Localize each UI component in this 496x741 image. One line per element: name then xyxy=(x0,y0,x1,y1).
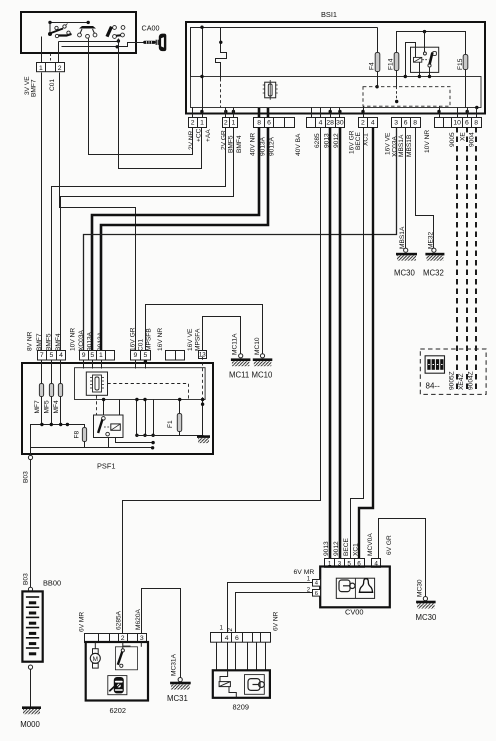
BSI1 box xyxy=(186,22,485,114)
PSF1 connector 9|5 xyxy=(131,351,151,361)
wire 9013 thick xyxy=(329,127,332,558)
wire M620A to ground MC31 xyxy=(142,589,181,678)
svg-text:4: 4 xyxy=(319,119,323,126)
CV00 box xyxy=(320,567,390,608)
wire 8209 pin4 to CV00 pin4 xyxy=(228,583,313,633)
svg-text:8: 8 xyxy=(474,119,478,126)
svg-text:MC30: MC30 xyxy=(416,613,437,622)
CA00 switch 3 xyxy=(106,26,125,39)
CA00 switch 2 xyxy=(78,26,97,38)
svg-text:16V GR: 16V GR xyxy=(129,327,136,351)
svg-text:9004: 9004 xyxy=(468,132,475,147)
CV00 lock icon xyxy=(339,580,355,592)
fuse MF4 xyxy=(58,384,62,397)
8209 switch element xyxy=(219,670,236,698)
BSI1 connector row G2 xyxy=(223,118,238,128)
svg-text:40V NR: 40V NR xyxy=(250,133,257,156)
svg-text:MC11A: MC11A xyxy=(232,333,239,355)
svg-text:6: 6 xyxy=(465,119,469,126)
svg-text:MC31A: MC31A xyxy=(171,653,178,676)
wire MBS1A to ground MC30 xyxy=(405,128,407,250)
svg-text:9: 9 xyxy=(134,352,138,359)
fuse MF5 xyxy=(49,384,53,397)
svg-text:ME32: ME32 xyxy=(427,231,434,249)
svg-text:MC10: MC10 xyxy=(252,371,273,380)
svg-text:6V NR: 6V NR xyxy=(273,611,280,631)
svg-text:MC31: MC31 xyxy=(167,694,188,703)
svg-text:1: 1 xyxy=(220,625,224,632)
svg-text:2: 2 xyxy=(227,628,234,632)
svg-text:9013: 9013 xyxy=(323,541,330,556)
svg-text:4: 4 xyxy=(225,635,229,642)
wire MBS1B to ground MC32 xyxy=(416,128,434,250)
BSI1 inner connector strip box xyxy=(191,77,482,108)
svg-text:MBS1A: MBS1A xyxy=(399,226,406,249)
BSI1 top bus xyxy=(191,28,378,77)
BSI1 connector row G6 xyxy=(392,118,421,128)
component 84-- dashed box xyxy=(420,349,486,394)
svg-text:XE4Z: XE4Z xyxy=(458,374,465,391)
svg-text:MC10: MC10 xyxy=(254,337,261,355)
svg-text:BMF7: BMF7 xyxy=(36,333,43,351)
svg-text:3: 3 xyxy=(140,635,144,642)
svg-text:3: 3 xyxy=(394,119,398,126)
battery terminal top xyxy=(28,587,32,591)
step connector wire to pin BMF5 feed xyxy=(216,28,227,79)
svg-text:4: 4 xyxy=(371,119,375,126)
svg-text:40V BA: 40V BA xyxy=(295,133,302,156)
svg-text:9005: 9005 xyxy=(449,132,456,147)
svg-text:MC11: MC11 xyxy=(229,371,249,380)
svg-text:9013A: 9013A xyxy=(87,331,94,351)
svg-text:BECE: BECE xyxy=(343,537,350,556)
BSI1 connector row G4 xyxy=(307,118,345,128)
svg-text:9012A: 9012A xyxy=(269,136,276,156)
wire BMF4 xyxy=(61,128,234,351)
svg-text:8V NR: 8V NR xyxy=(26,331,33,351)
battery terminal bottom xyxy=(28,665,32,669)
svg-text:C01: C01 xyxy=(49,79,56,91)
pin stubs G4 xyxy=(311,108,313,118)
wire MPSFA to ground MC11 xyxy=(203,317,241,356)
svg-text:8: 8 xyxy=(413,119,417,126)
svg-text:MF7: MF7 xyxy=(34,400,41,414)
ground MC30 terminal xyxy=(423,597,427,601)
wire BECE xyxy=(351,128,364,559)
BSI1 connector row G5 xyxy=(359,118,378,128)
svg-text:MPSFA: MPSFA xyxy=(195,328,202,351)
svg-text:10V NR: 10V NR xyxy=(69,328,76,351)
PSF1 relay box xyxy=(94,415,124,438)
svg-text:6V MR: 6V MR xyxy=(294,569,315,576)
svg-text:F1: F1 xyxy=(167,420,174,428)
svg-text:MPSFB: MPSFB xyxy=(145,328,152,351)
svg-text:2: 2 xyxy=(121,635,125,642)
PSF1 lower bus xyxy=(84,442,86,448)
CV00 inner box xyxy=(336,578,374,598)
svg-text:9005Z: 9005Z xyxy=(448,371,455,390)
svg-text:B03: B03 xyxy=(22,471,29,483)
6202 connector row xyxy=(85,634,147,643)
wire XC03A xyxy=(84,128,397,351)
wire 6285 xyxy=(123,128,321,634)
svg-text:F14: F14 xyxy=(387,58,394,70)
svg-text:6: 6 xyxy=(404,119,408,126)
svg-text:16V NR: 16V NR xyxy=(157,328,164,351)
PSF1 strip-to-bus verticals xyxy=(136,400,138,436)
CA00 switch 1 xyxy=(48,22,72,37)
BSI internal relay xyxy=(411,47,439,72)
svg-text:BB00: BB00 xyxy=(43,579,61,588)
svg-text:9013A: 9013A xyxy=(259,136,266,156)
dashed wire 9004 xyxy=(475,127,477,389)
BSI bus 2 F14-relay-F15 xyxy=(397,32,466,55)
6202 car-lock icon xyxy=(108,676,127,695)
ground M000 xyxy=(22,706,41,714)
wire MCV0A to ground MC30 xyxy=(379,519,426,597)
svg-text:CV00: CV00 xyxy=(345,608,364,617)
svg-text:1: 1 xyxy=(232,119,236,126)
PSF1 wires fuses to bus xyxy=(41,369,43,384)
wire 9013A thick xyxy=(92,127,259,350)
pin stubs G3 thick xyxy=(258,108,261,117)
relay top terminals xyxy=(103,400,105,416)
CA00 internal lower buses xyxy=(59,41,119,43)
BSI1 connector row G1 xyxy=(189,118,207,128)
svg-text:1: 1 xyxy=(99,352,103,359)
wire B03 battery positive xyxy=(30,460,32,588)
wire +AA (CA00 to BSI) xyxy=(119,39,202,169)
8209 connector stubs xyxy=(216,643,218,671)
CV00 connector row xyxy=(325,559,365,568)
svg-text:BMF7: BMF7 xyxy=(31,79,38,97)
fuse F14 xyxy=(394,53,399,71)
wire 9012 thick xyxy=(339,127,342,558)
PSF1 connector empty pair xyxy=(166,351,185,361)
dashed wire 9005 xyxy=(456,127,458,389)
svg-text:4: 4 xyxy=(59,352,63,359)
CV00 left pin 4 xyxy=(313,580,321,587)
svg-text:PSF1: PSF1 xyxy=(97,462,115,471)
svg-text:1: 1 xyxy=(200,119,204,126)
ground MC31 terminal xyxy=(178,678,182,682)
svg-text:2: 2 xyxy=(224,119,228,126)
svg-text:84--: 84-- xyxy=(426,382,441,391)
svg-text:6: 6 xyxy=(267,119,271,126)
ground MC32 terminal xyxy=(432,248,436,252)
svg-text:XC03A: XC03A xyxy=(78,330,85,351)
8209 connector row xyxy=(211,633,271,643)
ground MC11 xyxy=(231,358,251,366)
ground MC10 terminal xyxy=(260,354,264,358)
svg-text:6285: 6285 xyxy=(314,133,321,148)
PSF1 inner strip box xyxy=(75,368,206,400)
svg-text:9: 9 xyxy=(82,352,86,359)
svg-text:BMF4: BMF4 xyxy=(55,333,62,351)
svg-text:MBS1B: MBS1B xyxy=(406,134,413,157)
wire BMF5 xyxy=(52,128,226,351)
svg-text:M000: M000 xyxy=(20,720,40,729)
svg-text:XC1: XC1 xyxy=(353,543,360,556)
svg-text:2: 2 xyxy=(361,119,365,126)
wire +CC (CA00 to BSI) xyxy=(89,39,193,155)
svg-text:1: 1 xyxy=(39,65,43,72)
svg-text:MC32: MC32 xyxy=(423,269,444,278)
ground MC32 xyxy=(425,253,444,261)
svg-text:8: 8 xyxy=(257,119,261,126)
ground MC11 terminal xyxy=(239,354,243,358)
CV00 left pin 6 xyxy=(313,590,321,597)
PSF1 inner connector icon xyxy=(86,372,107,395)
svg-text:6: 6 xyxy=(315,591,318,597)
drop to pin BECE xyxy=(363,107,365,118)
8209 box xyxy=(213,670,270,698)
dashed wire XE xyxy=(466,127,468,389)
PSF1 dashed internal links xyxy=(108,384,189,400)
svg-text:B03: B03 xyxy=(22,573,29,585)
wire BMF7 (CA00 to PSF1 pin7) xyxy=(41,73,43,351)
svg-text:6202: 6202 xyxy=(110,706,126,715)
fuse F4 xyxy=(377,28,379,53)
ground MC30 xyxy=(396,253,417,261)
BSI1 connector row G7 xyxy=(435,118,482,128)
PSF1 box xyxy=(22,363,213,454)
svg-text:CA00: CA00 xyxy=(142,23,160,32)
ground MC10 xyxy=(253,358,272,366)
BSI1 connector row G3 xyxy=(254,118,295,128)
svg-text:9004Z: 9004Z xyxy=(467,371,474,390)
PSF1 bus to B03 xyxy=(31,425,85,458)
svg-text:2V GR: 2V GR xyxy=(221,130,228,150)
svg-text:MC30: MC30 xyxy=(394,269,415,278)
84-- display icon xyxy=(425,356,444,373)
svg-text:2V NR: 2V NR xyxy=(188,130,195,150)
svg-text:10V NR: 10V NR xyxy=(424,130,431,153)
CV00 bell icon xyxy=(359,579,373,593)
fuse F15 xyxy=(463,55,468,70)
svg-text:MCV0A: MCV0A xyxy=(367,533,374,556)
6202 motor M xyxy=(90,642,100,668)
6202 switch xyxy=(115,642,141,670)
svg-text:F4: F4 xyxy=(368,62,375,70)
6202 box xyxy=(86,642,148,701)
svg-text:C01: C01 xyxy=(137,339,144,351)
CV00 connector pin4 xyxy=(372,559,381,568)
svg-text:MF4: MF4 xyxy=(53,400,60,414)
svg-text:MF5: MF5 xyxy=(44,400,51,414)
PSF1 pin stubs xyxy=(41,360,43,369)
svg-text:5: 5 xyxy=(50,352,54,359)
svg-text:30: 30 xyxy=(336,119,344,126)
PSF1 mid bus to ground xyxy=(137,435,204,437)
svg-text:6V MR: 6V MR xyxy=(78,612,85,632)
fuse MF7 xyxy=(39,384,43,397)
svg-text:28: 28 xyxy=(326,119,334,126)
svg-text:BSI1: BSI1 xyxy=(321,10,337,19)
ground MC30 bottom xyxy=(416,601,436,609)
svg-text:5: 5 xyxy=(144,352,148,359)
svg-text:10: 10 xyxy=(453,119,461,126)
PSF1 connector pin 13 xyxy=(199,351,207,359)
svg-text:2: 2 xyxy=(191,119,195,126)
ground MC31 xyxy=(170,682,191,690)
CA00 internal top bus xyxy=(51,22,89,24)
wire XC1 thick xyxy=(359,127,373,558)
wire to ground M000 xyxy=(30,670,32,707)
svg-text:8209: 8209 xyxy=(233,703,249,712)
svg-text:7: 7 xyxy=(40,352,44,359)
svg-text:+AA: +AA xyxy=(205,129,212,142)
PSF1 connector 9|5|1 xyxy=(80,351,115,361)
fuse F1 xyxy=(177,414,181,432)
svg-text:16V VE: 16V VE xyxy=(384,132,391,155)
BSI internal fuse-connector icon xyxy=(263,80,278,100)
svg-text:XE: XE xyxy=(459,132,466,141)
svg-text:5: 5 xyxy=(90,352,94,359)
BSI dashed sub-box xyxy=(363,87,450,107)
svg-text:9012A: 9012A xyxy=(97,331,104,351)
svg-text:16V VE: 16V VE xyxy=(187,328,194,351)
PSF1 connector 7|5|4 xyxy=(38,351,66,361)
CA00 connector pins 1,2 xyxy=(41,37,43,63)
fuse F8 xyxy=(82,428,86,442)
battery BB00 xyxy=(22,591,42,661)
svg-text:9012: 9012 xyxy=(333,541,340,556)
svg-text:F15: F15 xyxy=(457,58,464,70)
svg-text:BMF5: BMF5 xyxy=(45,333,52,351)
PSF1 internal ground xyxy=(202,400,204,436)
key icon xyxy=(136,34,166,52)
svg-text:M: M xyxy=(93,656,98,663)
svg-text:6V GR: 6V GR xyxy=(386,535,393,555)
svg-text:2: 2 xyxy=(58,65,62,72)
ignition switch CA00 box xyxy=(21,12,136,53)
svg-text:F8: F8 xyxy=(73,430,80,438)
wire 8209 pin6 to CV00 pin6 xyxy=(236,593,313,633)
wire 9012A thick xyxy=(101,127,268,350)
wire C01 (CA00 to PSF1 pin9) xyxy=(60,73,136,351)
svg-text:BECE: BECE xyxy=(355,131,362,150)
svg-text:BMF4: BMF4 xyxy=(236,135,243,153)
svg-text:6: 6 xyxy=(235,635,239,642)
svg-text:MBS1A: MBS1A xyxy=(398,134,405,157)
wire A pin1 to bus xyxy=(202,28,204,118)
svg-text:MC30: MC30 xyxy=(416,579,423,597)
relay coil loop to strip xyxy=(406,43,416,77)
svg-text:6285A: 6285A xyxy=(116,610,123,630)
relay terminals xyxy=(424,32,426,53)
PSF1 B03 terminal xyxy=(28,455,32,459)
drop to pin spare xyxy=(439,107,441,118)
ground MC30 terminal xyxy=(404,248,408,252)
wire MPSFB to ground MC10 xyxy=(146,305,263,356)
8209 lock barrel icon xyxy=(245,675,265,695)
